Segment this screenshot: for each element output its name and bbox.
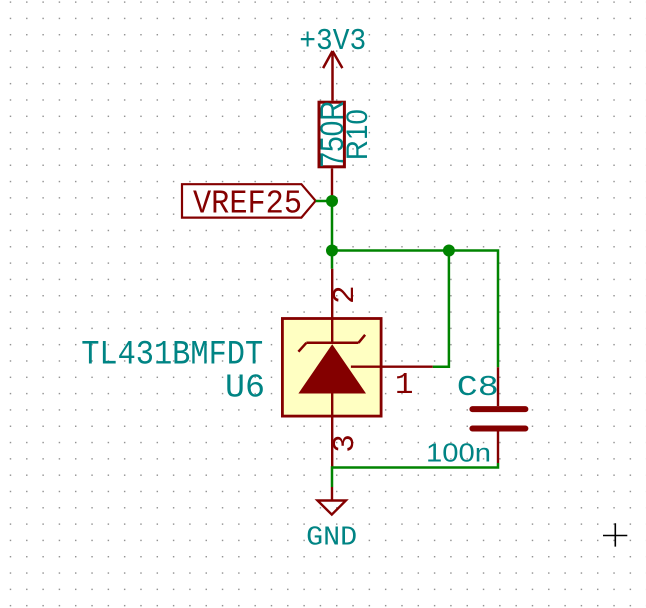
svg-text:2: 2 xyxy=(328,285,363,304)
resistor R10 bottom pin xyxy=(331,168,333,201)
junction A xyxy=(326,195,338,207)
junction B xyxy=(326,245,338,257)
svg-text:VREF25: VREF25 xyxy=(193,185,302,223)
svg-text:+3V3: +3V3 xyxy=(299,24,366,59)
svg-text:R10: R10 xyxy=(341,109,374,160)
svg-text:1: 1 xyxy=(395,368,414,403)
svg-text:100n: 100n xyxy=(426,438,491,468)
svg-text:3: 3 xyxy=(328,434,363,453)
U6 body TL431 xyxy=(282,319,381,417)
power symbol +3V3 arrow xyxy=(323,51,342,101)
wire horizontal j2 to cap branch xyxy=(332,251,498,368)
U6 cathode bar xyxy=(298,335,365,352)
wire j3 down to pin1 xyxy=(433,251,449,367)
global label VREF25 outline xyxy=(182,184,316,217)
resistor R10 body xyxy=(319,102,344,167)
capacitor C8 plates xyxy=(472,409,525,428)
wire vertical j1 to pin2 xyxy=(331,201,334,269)
wire label stub xyxy=(316,200,332,203)
wire bottom xyxy=(332,463,498,487)
U6 pin 2 xyxy=(331,269,333,344)
ground symbol xyxy=(318,501,346,515)
U6 pin 3 xyxy=(331,394,333,468)
svg-text:C8: C8 xyxy=(457,371,499,404)
U6 pin 1 xyxy=(351,366,433,368)
U6 triangle xyxy=(298,344,366,393)
svg-text:U6: U6 xyxy=(225,369,265,406)
cursor crosshair xyxy=(603,523,627,546)
junction C xyxy=(443,245,455,257)
svg-text:GND: GND xyxy=(306,523,357,553)
ground stub xyxy=(331,487,333,501)
capacitor C8 pins xyxy=(497,367,499,463)
